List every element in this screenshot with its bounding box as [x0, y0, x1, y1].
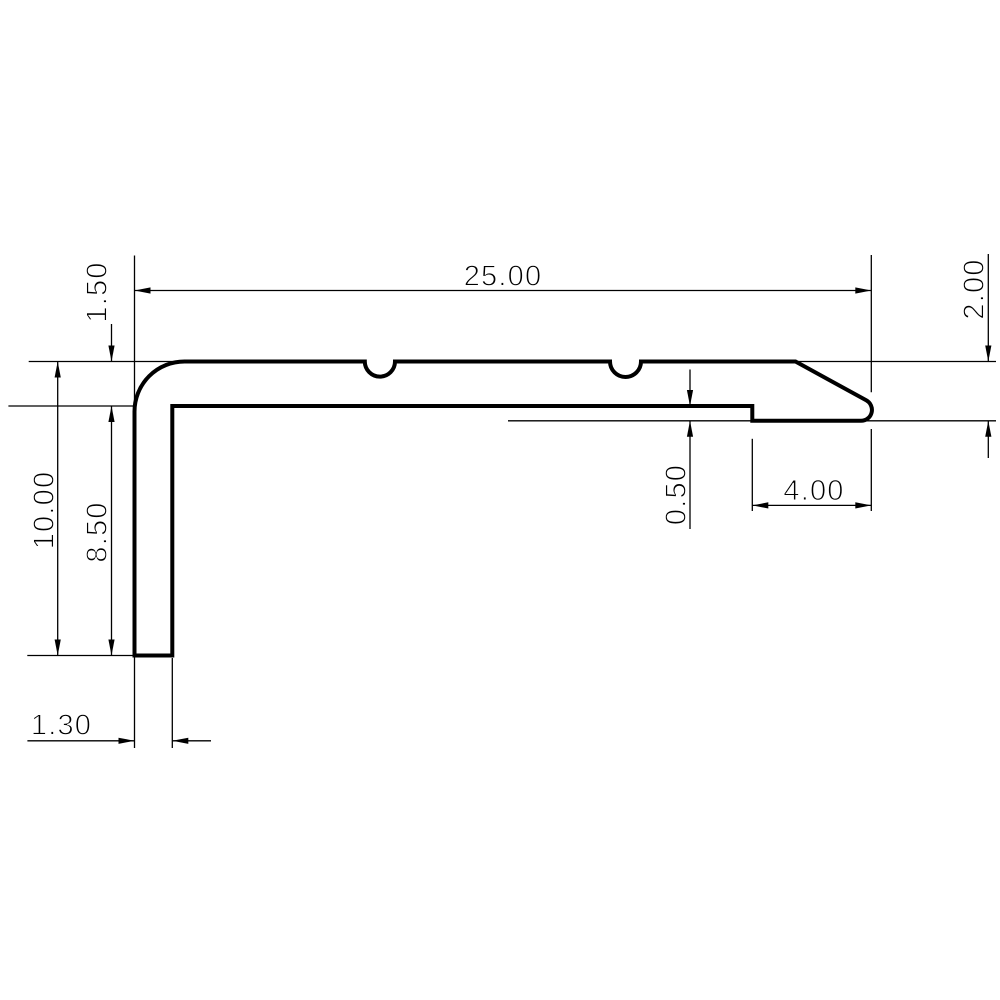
svg-text:8.50: 8.50 [82, 501, 114, 562]
svg-text:2.00: 2.00 [959, 258, 991, 319]
svg-text:0.50: 0.50 [661, 464, 693, 525]
svg-text:4.00: 4.00 [783, 475, 844, 507]
svg-text:1.30: 1.30 [31, 710, 92, 742]
svg-text:10.00: 10.00 [28, 471, 60, 550]
svg-text:25.00: 25.00 [464, 260, 543, 292]
svg-text:1.50: 1.50 [82, 261, 114, 322]
